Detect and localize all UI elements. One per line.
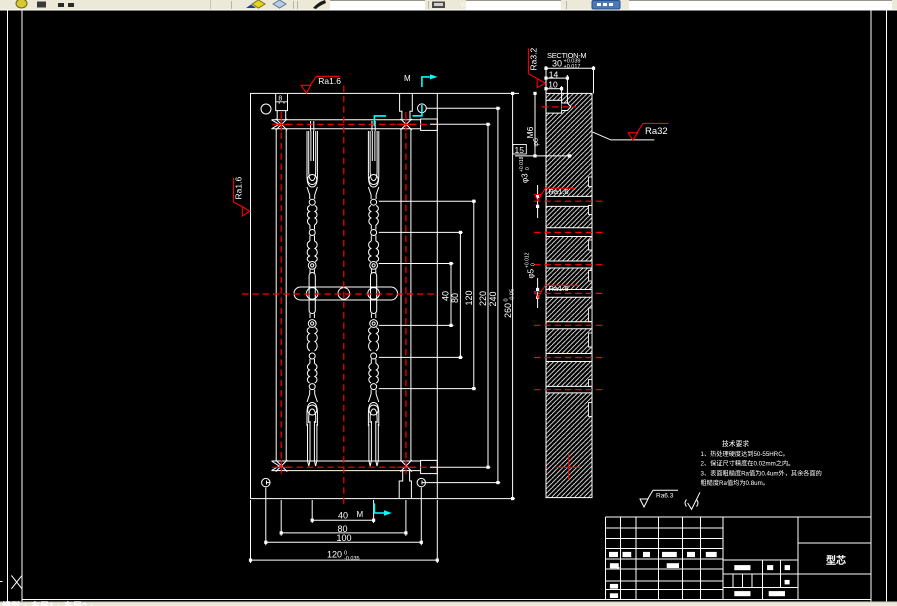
cavity left (baluster profile) [306,121,318,466]
surface finish mark ( ) [685,492,700,509]
M6 screw hole in section [546,100,571,113]
svg-text:Ra1.6: Ra1.6 [234,177,244,200]
svg-text:技术要求: 技术要求 [722,439,749,448]
svg-text:3、表面粗糙度Ra值为0.4um外，其余各面的: 3、表面粗糙度Ra值为0.4um外，其余各面的 [701,469,822,477]
Ra3.2 symbol (rotated) [528,48,545,87]
right dim texts (rotated) [441,290,513,318]
title block grid [606,517,872,599]
svg-text:-0.05: -0.05 [509,289,515,302]
mold plate outline [251,93,438,498]
technical requirements text [701,439,822,487]
red centerlines [242,86,439,506]
svg-text:220: 220 [478,291,488,306]
svg-text:Ra6.3: Ra6.3 [656,493,674,500]
phi5 dim [537,278,539,308]
svg-text:30: 30 [552,58,562,68]
svg-text:100: 100 [337,533,352,543]
Ra1.6 labels inside section [535,188,576,201]
svg-text:40: 40 [338,510,348,520]
title block text blobs [609,552,790,598]
hatched column [546,93,592,497]
svg-text:粗糙度Ra值均为0.8um。: 粗糙度Ra值均为0.8um。 [701,479,769,487]
cyan jog marks mid [374,105,422,126]
Ra1.6 symbol top [301,76,340,93]
runner X junctions [272,119,412,472]
svg-text:2、保证尺寸精度在0.02mm之内。: 2、保证尺寸精度在0.02mm之内。 [701,460,795,468]
phi3 dim [537,185,539,218]
bottom tab strip [0,600,897,606]
surface finish mark Ra6.3 [640,490,678,507]
M6 dim [515,93,572,155]
svg-text:8: 8 [278,96,282,103]
svg-text:布局1: 布局1 [30,600,54,606]
dim ticks bottom [311,519,314,522]
bottom dim extension lines [251,488,438,564]
toolbar icon fragments [16,0,27,8]
svg-text:0: 0 [531,263,537,266]
left ejector channel [275,129,277,461]
svg-text:10: 10 [548,80,558,90]
svg-text:0: 0 [525,167,531,170]
right edge step tabs [589,177,592,417]
svg-text:φ6: φ6 [533,138,540,147]
top runner channel [272,119,438,474]
svg-text:-0.035: -0.035 [344,556,360,562]
svg-text:φ3: φ3 [521,173,530,183]
Ra32 symbol right [593,132,655,140]
svg-text:40: 40 [441,291,451,301]
svg-text:Ra1.6: Ra1.6 [549,187,569,196]
svg-text:M: M [404,74,411,83]
svg-text:80: 80 [450,293,460,303]
right dim extension lines [379,93,519,498]
cyan section mark top [422,77,430,87]
svg-text:M: M [357,510,364,519]
svg-text:15: 15 [515,145,525,155]
svg-text:120: 120 [464,290,474,305]
svg-text:布局2: 布局2 [63,600,87,606]
right bottom stem + slot [399,471,411,499]
svg-text:φ5: φ5 [527,268,536,278]
screw hole top-right [418,104,427,113]
svg-text:模型: 模型 [2,600,20,606]
cavity right (baluster profile) [368,121,380,466]
cyan section mark bottom [374,503,384,513]
svg-text:Ra3.2: Ra3.2 [528,48,538,71]
svg-text:Ra1.6: Ra1.6 [549,284,569,293]
svg-text:14: 14 [549,69,559,79]
right dim lines [451,93,513,498]
svg-text:120: 120 [327,550,342,560]
bottom dim lines [251,520,438,560]
red cross center mark [557,454,582,480]
svg-text:Ra32: Ra32 [645,126,668,137]
dim ticks right [449,262,452,265]
toolbar strip [0,0,897,11]
svg-text:1、热处理硬度达到50-55HRC。: 1、热处理硬度达到50-55HRC。 [701,450,789,458]
left ejector slot top [276,93,413,498]
Ra1.6 symbol left (rotated) [234,178,250,216]
svg-text:240: 240 [488,291,498,306]
svg-text:M6: M6 [525,126,535,138]
svg-text:Ra1.6: Ra1.6 [318,76,341,86]
bottom runner channel [272,460,421,462]
svg-text:型芯: 型芯 [826,554,846,567]
crosshair X bottom-left [0,575,22,588]
screw hole bottom-right [417,478,425,486]
right ejector slot top [400,93,413,119]
section top dims [546,66,594,103]
hole bands in section [546,196,591,393]
screw hole bottom-left [262,478,270,486]
svg-text:+0.017: +0.017 [564,64,581,70]
svg-text:260: 260 [503,303,513,318]
middle runner capsule [294,287,398,300]
bottom dim texts [327,510,352,559]
svg-text:Yy: Yy [460,3,469,10]
right ejector channel [400,129,402,461]
guide hole top-left [261,104,271,114]
